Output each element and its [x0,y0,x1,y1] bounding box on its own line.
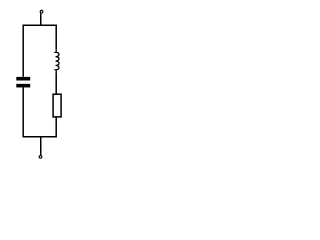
resistor R1 [53,94,61,117]
terminal bottom [39,156,42,159]
terminal top [40,10,43,13]
wire left branch lower [22,87,24,136]
capacitor C1 bottom plate [16,84,30,88]
wire bottom stub [40,137,42,155]
inductor L1 [56,49,59,72]
wire top stub [40,13,42,25]
wire right branch lower [55,117,57,137]
wire left branch upper [22,25,24,77]
wire top rail [23,24,57,26]
wire right branch middle [55,72,57,94]
wire bottom rail [23,136,57,138]
capacitor C1 top plate [16,77,30,81]
wire right branch upper [55,25,57,49]
